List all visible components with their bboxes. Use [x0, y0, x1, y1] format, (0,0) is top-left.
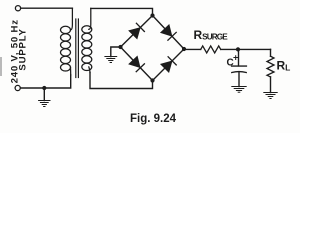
- wire top rail primary: [21, 7, 73, 9]
- transformer T1 secondary winding: [82, 8, 92, 72]
- node left vertex: [118, 45, 122, 49]
- wire R_L to ground: [270, 77, 272, 93]
- wire secondary bottom to bridge: [90, 73, 153, 89]
- junction dot filter node: [236, 47, 240, 51]
- terminal bottom-left: [15, 85, 20, 90]
- svg-text:+: +: [233, 52, 238, 62]
- svg-text:SUPPLY: SUPPLY: [18, 29, 29, 71]
- ground G3 (capacitor): [232, 87, 246, 93]
- wire to load branch: [270, 49, 272, 56]
- svg-text:RSURGE: RSURGE: [194, 28, 229, 42]
- capacitor C plates: [232, 65, 247, 67]
- wire bridge output: [184, 48, 201, 50]
- resistor R_L zigzag: [267, 56, 274, 77]
- node right vertex: [182, 47, 186, 51]
- diode D4: [161, 61, 171, 71]
- scan artifact left edge: [0, 57, 2, 76]
- diode D2: [161, 25, 171, 36]
- transformer T1 primary winding: [61, 8, 73, 75]
- transformer T1 core: [75, 19, 77, 78]
- junction dot ground node: [42, 86, 46, 90]
- diode D1: [129, 28, 139, 38]
- ground G4 (load): [264, 93, 277, 99]
- svg-text:RL: RL: [277, 58, 291, 72]
- svg-text:Fig. 9.24: Fig. 9.24: [130, 113, 177, 125]
- capacitor C branch wire: [238, 49, 240, 66]
- terminal top-left: [15, 6, 20, 11]
- bridge diamond wires: [121, 16, 185, 81]
- node top vertex: [150, 13, 154, 17]
- wire bottom rail primary: [21, 75, 71, 88]
- diode D3: [129, 57, 139, 67]
- ground G2 (bridge negative): [111, 47, 121, 57]
- wire secondary top to bridge: [91, 8, 153, 15]
- wire to filter node: [221, 48, 271, 50]
- ground G1 (mains): [43, 88, 45, 101]
- node bottom vertex: [150, 78, 154, 82]
- resistor R_SURGE zigzag: [201, 46, 221, 53]
